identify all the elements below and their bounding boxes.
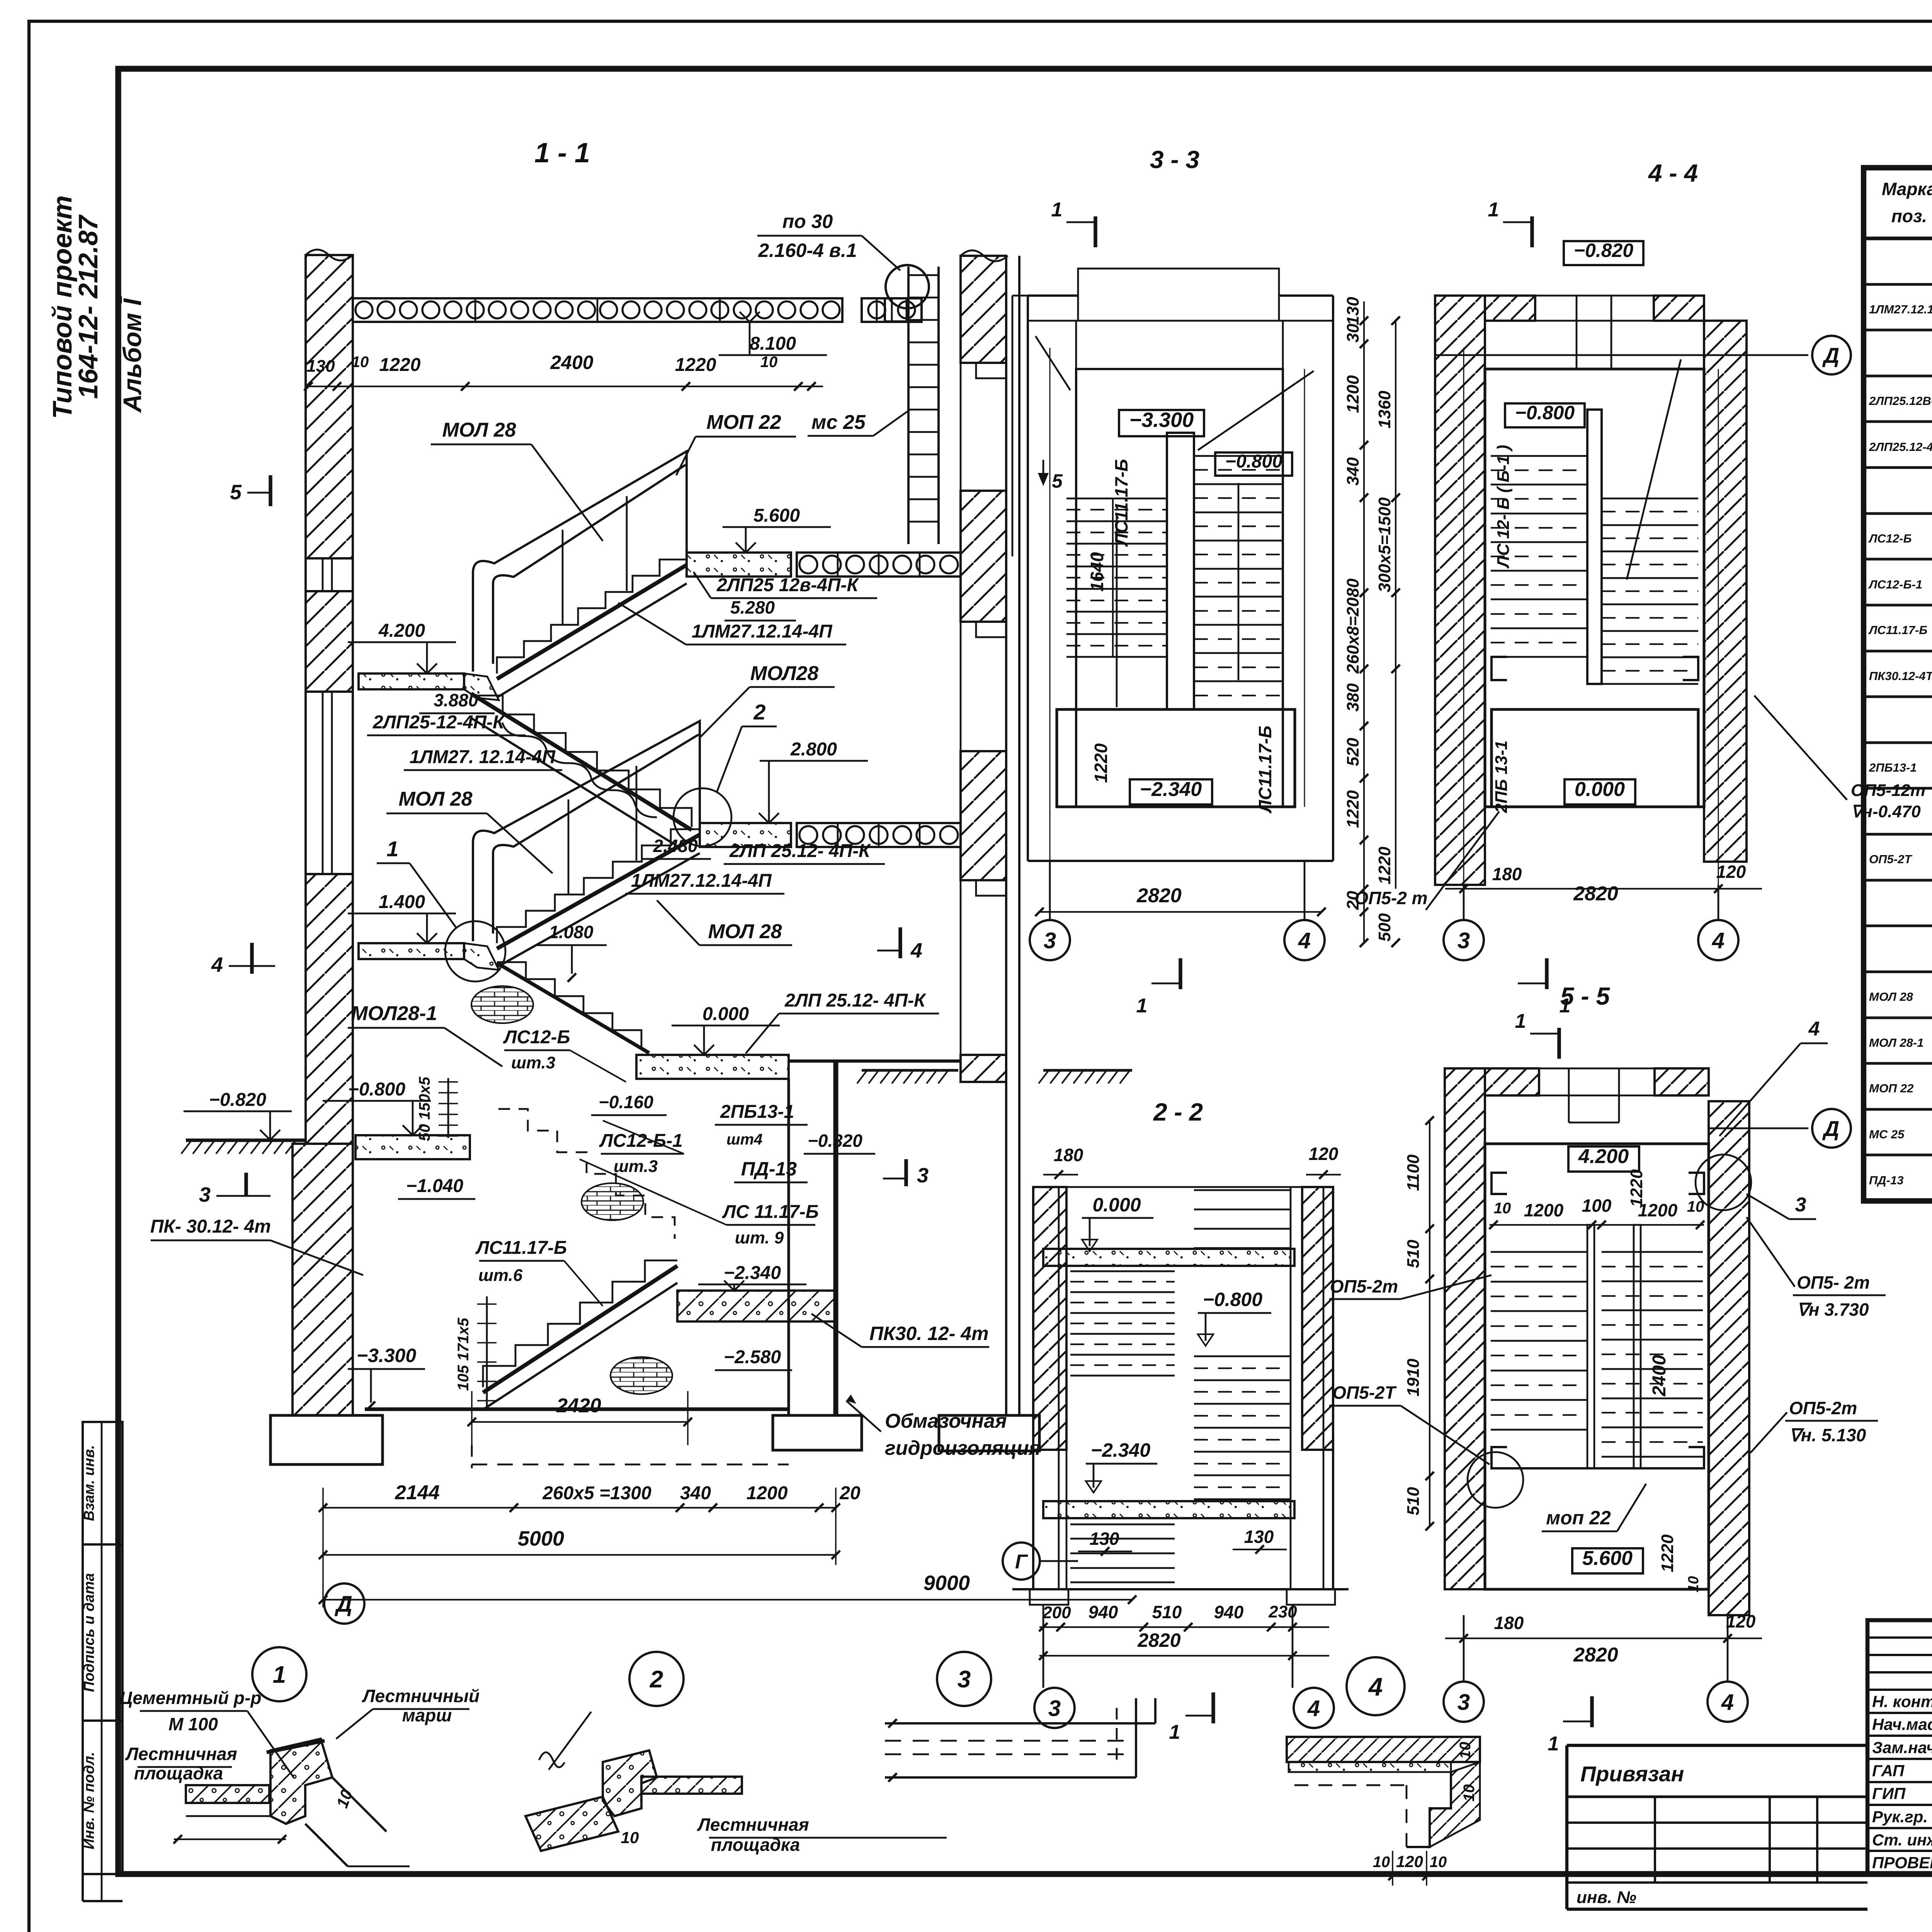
detail 4 screed band <box>1289 1762 1451 1772</box>
svg-text:−0.820: −0.820 <box>209 1090 266 1110</box>
axis circles 5-5 <box>1463 1615 1465 1682</box>
svg-text:ЛС12-Б: ЛС12-Б <box>503 1027 570 1048</box>
svg-text:ЛС11.17-Б: ЛС11.17-Б <box>1111 459 1131 547</box>
svg-text:∇н-0.470: ∇н-0.470 <box>1851 802 1921 821</box>
svg-text:10: 10 <box>1430 1854 1447 1871</box>
plan 3-3 top corridor outline <box>1078 269 1279 296</box>
section marker 5 left <box>269 475 272 506</box>
plan 5-5 bottom dims <box>1445 1638 1762 1639</box>
section marker 3 left <box>244 1173 248 1196</box>
svg-text:МОЛ 28: МОЛ 28 <box>708 920 782 943</box>
detail circle at 1.400 nib <box>445 921 505 981</box>
masonry blob symbol <box>611 1357 672 1394</box>
svg-text:ПРОВЕР.: ПРОВЕР. <box>1872 1854 1932 1872</box>
plan 4-4 right wall hatched <box>1704 321 1747 862</box>
svg-text:мс 25: мс 25 <box>811 411 866 434</box>
svg-text:Лестничная: Лестничная <box>697 1815 809 1835</box>
level -0.800 basement entry <box>403 1125 413 1135</box>
section 4-4 cut flag top <box>1530 216 1534 247</box>
svg-text:5.600: 5.600 <box>1582 1547 1633 1570</box>
svg-text:Инв. № подл.: Инв. № подл. <box>81 1752 97 1850</box>
detail 1 landing slab band <box>186 1785 269 1803</box>
plan 4-4 center divider <box>1587 410 1602 684</box>
svg-text:940: 940 <box>1088 1602 1118 1622</box>
svg-text:510: 510 <box>1152 1602 1182 1622</box>
svg-text:1220: 1220 <box>1091 743 1111 783</box>
svg-text:9000: 9000 <box>923 1571 970 1595</box>
section 3-3 cut flag bottom <box>1179 958 1182 989</box>
dashed pit outline <box>472 1464 789 1466</box>
svg-text:ПК30.12-4Т: ПК30.12-4Т <box>1869 669 1932 683</box>
plan 4-4 inner room <box>1485 369 1704 807</box>
svg-text:1: 1 <box>273 1662 286 1688</box>
slab band at 5.600 <box>797 553 961 577</box>
dimension 2420 <box>472 1421 688 1423</box>
detail 2 hook mark <box>539 1752 565 1767</box>
svg-text:ЛС12-Б-1: ЛС12-Б-1 <box>1868 578 1922 591</box>
privyazan stamp block <box>1567 1744 1867 1747</box>
svg-text:2144: 2144 <box>395 1481 440 1504</box>
svg-text:гидроизоляция: гидроизоляция <box>885 1437 1041 1459</box>
axis circle Г left <box>1003 1543 1040 1580</box>
svg-text:Нач.маст: Нач.маст <box>1872 1715 1932 1733</box>
svg-text:4: 4 <box>910 939 922 962</box>
svg-text:5: 5 <box>1052 470 1063 492</box>
plan 2-2 dim 2820 <box>1039 1655 1329 1656</box>
svg-text:шт.3: шт.3 <box>511 1053 555 1072</box>
svg-text:МОЛ 28: МОЛ 28 <box>442 419 516 441</box>
support pad ОП <box>1492 1173 1507 1194</box>
top dimension line <box>308 386 823 387</box>
soil hatch right of pit <box>862 1069 958 1071</box>
svg-text:3: 3 <box>1044 928 1056 953</box>
specification table header row <box>1864 236 1932 240</box>
svg-text:2820: 2820 <box>1573 883 1618 905</box>
step dim ladder 50 150x5 <box>447 1078 449 1138</box>
soil hatch left <box>186 1139 306 1142</box>
svg-text:1.400: 1.400 <box>379 892 425 912</box>
svg-text:1ЛМ27.12.14-4П: 1ЛМ27.12.14-4П <box>1869 303 1932 316</box>
slab band at 2.800 <box>797 823 961 847</box>
svg-text:0.000: 0.000 <box>1575 778 1625 801</box>
basement dashed flight <box>498 1109 675 1239</box>
svg-text:площадка: площадка <box>134 1763 223 1783</box>
plan 5-5 left wall hatched <box>1445 1068 1485 1589</box>
level label 0.000 <box>1565 779 1635 804</box>
entrance threshold right <box>789 1060 961 1063</box>
svg-text:4: 4 <box>1712 928 1725 953</box>
plan 4-4 left wall hatched <box>1435 296 1485 885</box>
treads 5-5 left <box>1491 1251 1587 1253</box>
svg-text:−2.340: −2.340 <box>724 1263 781 1283</box>
svg-text:2.160-4 в.1: 2.160-4 в.1 <box>758 240 857 261</box>
svg-text:−3.300: −3.300 <box>357 1345 417 1366</box>
plan 3-3 arrows on flights <box>1116 514 1118 707</box>
plan 2-2 right wall hatched <box>1302 1187 1333 1450</box>
extension lines <box>322 1488 324 1607</box>
svg-text:Зам.нач.: Зам.нач. <box>1872 1738 1932 1757</box>
svg-text:120: 120 <box>1716 862 1746 882</box>
plan 5-5 center dividers <box>1587 1225 1594 1468</box>
svg-text:Марка: Марка <box>1882 179 1932 199</box>
svg-text:5: 5 <box>230 481 242 504</box>
left dim column 5-5 <box>1429 1121 1430 1526</box>
svg-text:шт.3: шт.3 <box>614 1157 658 1176</box>
svg-text:4: 4 <box>1808 1018 1820 1040</box>
svg-text:510: 510 <box>1404 1240 1423 1268</box>
svg-text:−0.160: −0.160 <box>599 1092 653 1112</box>
detail 1 step block <box>270 1739 332 1824</box>
stair railing МОЛ28 upper <box>473 451 687 672</box>
plan 2-2 wall verticals <box>1058 1187 1060 1589</box>
svg-text:Н. контр.: Н. контр. <box>1872 1692 1932 1711</box>
detail 4 hatched slab <box>1287 1737 1480 1762</box>
right wall ledges <box>961 363 1006 378</box>
axis Д line and circle <box>1435 354 1808 356</box>
svg-text:3: 3 <box>917 1164 929 1187</box>
detail 2 landing slab band <box>641 1777 742 1794</box>
support pad ОП <box>1689 1447 1704 1468</box>
svg-text:10: 10 <box>352 354 369 371</box>
svg-text:ЛС 11.17-Б: ЛС 11.17-Б <box>722 1202 819 1222</box>
detail 4 step down <box>1406 1772 1451 1847</box>
svg-text:2: 2 <box>753 700 765 724</box>
svg-text:380: 380 <box>1344 683 1362 712</box>
specification table outline <box>1864 168 1932 1201</box>
svg-text:4: 4 <box>1368 1672 1383 1701</box>
svg-text:поз.: поз. <box>1891 206 1927 226</box>
svg-text:260х5 =1300: 260х5 =1300 <box>542 1483 651 1503</box>
svg-text:Альбом Ī: Альбом Ī <box>118 296 146 413</box>
svg-text:−2.340: −2.340 <box>1091 1439 1151 1461</box>
detail 3 wall verticals <box>1135 1698 1137 1777</box>
plan 5-5 lower landing <box>1491 1467 1703 1469</box>
svg-text:1: 1 <box>1051 199 1063 221</box>
axis circles 3-3 <box>1049 861 1051 920</box>
treads 2-2 upper left <box>1070 1270 1175 1272</box>
axis circles 2-2 <box>1043 1605 1044 1688</box>
section marker 4 right <box>898 927 902 958</box>
plan 5-5 right wall hatched <box>1709 1101 1749 1615</box>
svg-text:5.600: 5.600 <box>753 505 800 526</box>
svg-text:10: 10 <box>1687 1198 1704 1215</box>
svg-text:ПД-13: ПД-13 <box>1869 1173 1904 1187</box>
svg-text:шт.6: шт.6 <box>478 1266 523 1285</box>
svg-text:1640: 1640 <box>1087 552 1107 592</box>
dimension row 2144 260x5 340 1200 20 <box>323 1507 836 1509</box>
ground line left, level -0.820 <box>186 1138 306 1141</box>
svg-text:340: 340 <box>1344 457 1362 486</box>
detail 2 marsh leader <box>549 1712 591 1770</box>
left side strip (Взам.инв.№ / Подпись и дата / Инв.№ подл.) <box>83 1422 122 1874</box>
plan 3-3 outer walls <box>1027 296 1029 861</box>
treads left flight 3-3 <box>1066 498 1167 500</box>
svg-text:4.200: 4.200 <box>378 621 425 641</box>
plan 2-2 feet <box>1030 1589 1068 1605</box>
title block outline <box>1867 1620 1932 1874</box>
level label −0.800 <box>1505 403 1585 427</box>
svg-text:130: 130 <box>1090 1529 1119 1549</box>
svg-text:180: 180 <box>1494 1613 1524 1633</box>
section 3-3 cut flag top <box>1094 216 1097 247</box>
section cut flag 1 below 2-2 <box>1211 1692 1215 1723</box>
svg-text:4 - 4: 4 - 4 <box>1648 159 1698 187</box>
svg-text:100: 100 <box>1582 1196 1612 1216</box>
svg-text:МОП 22: МОП 22 <box>706 411 781 434</box>
svg-text:Цементный р-р: Цементный р-р <box>120 1688 262 1708</box>
stair flight 1ЛМ27 (1.4-2.8) <box>497 829 700 943</box>
svg-text:2820: 2820 <box>1136 884 1182 907</box>
svg-text:3: 3 <box>1048 1696 1061 1721</box>
svg-text:−0.820: −0.820 <box>1574 240 1634 261</box>
svg-text:130: 130 <box>1344 297 1362 325</box>
detail 4 dashed lines <box>1294 1784 1406 1786</box>
svg-text:3: 3 <box>1795 1194 1806 1216</box>
svg-text:1220: 1220 <box>1627 1169 1646 1207</box>
svg-text:1200: 1200 <box>747 1483 788 1503</box>
svg-text:510: 510 <box>1404 1487 1423 1515</box>
svg-text:Лестничный: Лестничный <box>362 1686 480 1706</box>
svg-text:1: 1 <box>1515 1010 1526 1032</box>
detail 1 marsh soffit <box>332 1777 386 1832</box>
detail 1 callout circle <box>252 1647 306 1701</box>
svg-text:Д: Д <box>1822 1116 1839 1141</box>
slab band 0.000 (speckled) <box>1043 1249 1294 1266</box>
axis lines through plan 4-4 <box>1463 348 1464 885</box>
svg-text:120: 120 <box>1726 1611 1756 1631</box>
svg-text:1ЛМ27.12.14-4П: 1ЛМ27.12.14-4П <box>692 621 833 642</box>
svg-text:2ПБ13-1: 2ПБ13-1 <box>1869 761 1917 774</box>
svg-text:1: 1 <box>386 837 398 861</box>
svg-text:ЛС 12- Б ( Б-1 ): ЛС 12- Б ( Б-1 ) <box>1494 445 1513 568</box>
svg-text:ГИП: ГИП <box>1872 1784 1906 1803</box>
level label −0.800 <box>1215 452 1292 476</box>
floor slab 0.000 <box>636 1055 789 1079</box>
svg-text:МС 25: МС 25 <box>1869 1128 1905 1141</box>
detail 3 dashed jamb <box>1116 1708 1118 1762</box>
plan 4-4 bottom dims <box>1445 888 1762 889</box>
section marker 3 right <box>904 1159 908 1186</box>
svg-text:2400: 2400 <box>550 352 593 373</box>
left foundation block <box>270 1415 383 1464</box>
level label −3.300 <box>1119 410 1204 436</box>
svg-text:Взам. инв.: Взам. инв. <box>81 1445 97 1521</box>
svg-text:300х5=1500: 300х5=1500 <box>1375 497 1394 592</box>
svg-text:3 - 3: 3 - 3 <box>1150 146 1199 173</box>
level mark 8.100 <box>740 312 750 322</box>
svg-text:1 - 1: 1 - 1 <box>534 138 590 168</box>
svg-text:130: 130 <box>306 357 335 376</box>
level label −2.340 <box>1130 779 1212 804</box>
svg-text:1: 1 <box>1169 1721 1180 1743</box>
svg-text:ОП5-2Т: ОП5-2Т <box>1869 852 1913 866</box>
plan 4-4 top wall pieces <box>1485 296 1535 321</box>
section 5-5 cut flag bottom <box>1590 1696 1594 1727</box>
svg-text:10: 10 <box>1457 1742 1474 1759</box>
svg-text:0.000: 0.000 <box>1092 1194 1141 1216</box>
left wall window strips <box>306 558 353 591</box>
svg-text:1: 1 <box>1548 1733 1559 1755</box>
svg-text:260х8=2080: 260х8=2080 <box>1344 578 1362 674</box>
pit foundation block <box>773 1415 862 1450</box>
masonry blob symbol <box>582 1183 643 1220</box>
svg-text:2ЛП 25.12- 4П-К: 2ЛП 25.12- 4П-К <box>784 990 927 1011</box>
svg-text:Ст. инж.: Ст. инж. <box>1872 1831 1932 1849</box>
vertical dimension column between 3-3 and 4-4 <box>1363 301 1365 943</box>
detail 2 lower wedge <box>526 1797 618 1851</box>
detail callout circle top-right <box>1696 1155 1751 1210</box>
treads 2-2 right <box>1194 1355 1291 1357</box>
svg-text:МОЛ28-1: МОЛ28-1 <box>351 1002 437 1025</box>
svg-text:инв. №: инв. № <box>1577 1888 1636 1907</box>
svg-text:1220: 1220 <box>379 355 421 375</box>
svg-text:5 - 5: 5 - 5 <box>1560 982 1610 1010</box>
svg-text:по 30: по 30 <box>782 211 833 232</box>
basement landing slab ПК30 -2.340 <box>677 1291 835 1321</box>
hollow-core slab band <box>353 298 842 322</box>
big detail circle 4 <box>1347 1657 1405 1715</box>
svg-text:520: 520 <box>1344 738 1362 766</box>
svg-text:ЛС11.17-Б: ЛС11.17-Б <box>1255 726 1275 813</box>
svg-text:3: 3 <box>1458 928 1470 953</box>
svg-text:2ЛП25.12В-4П-К: 2ЛП25.12В-4П-К <box>1869 394 1932 408</box>
plan 5-5 top dim row <box>1490 1224 1704 1226</box>
svg-text:1220: 1220 <box>1375 847 1394 884</box>
svg-text:−2.580: −2.580 <box>724 1347 781 1367</box>
svg-text:ОП5-2т: ОП5-2т <box>1789 1398 1857 1418</box>
leader lines fanning to flight <box>570 1050 626 1082</box>
svg-text:ЛС11.17-Б: ЛС11.17-Б <box>1868 623 1927 637</box>
svg-text:2ЛП25 12в-4П-К: 2ЛП25 12в-4П-К <box>716 575 859 595</box>
svg-text:ОП5-2 т: ОП5-2 т <box>1354 888 1427 908</box>
slab anchor hook symbol <box>886 265 929 308</box>
svg-text:−0.800: −0.800 <box>1515 402 1575 423</box>
stair flight 1ЛМ27 (4.2-5.6) <box>497 560 687 673</box>
dimension 9000 <box>323 1599 1132 1600</box>
treads right flight 4-4 <box>1602 498 1698 500</box>
level label 4.200 <box>1568 1146 1639 1172</box>
svg-text:20: 20 <box>839 1483 861 1503</box>
svg-text:940: 940 <box>1214 1602 1244 1622</box>
svg-text:4: 4 <box>1298 928 1311 953</box>
step dim ladder 105 171x5 <box>486 1296 488 1408</box>
svg-text:120: 120 <box>1396 1852 1423 1871</box>
svg-text:МОЛ 28: МОЛ 28 <box>1869 990 1913 1003</box>
axis lines through plan 3-3 <box>1049 348 1051 861</box>
plan 3-3 flight center divider <box>1167 433 1194 709</box>
plan 4-4 lower landing <box>1492 709 1698 807</box>
left wall of section 1-1 (hatched masonry) <box>306 255 353 558</box>
svg-text:2ПБ 13-1: 2ПБ 13-1 <box>1492 740 1511 813</box>
plan 3-3 leader to upper area <box>1036 336 1070 390</box>
svg-text:5000: 5000 <box>518 1527 564 1550</box>
svg-text:ПК30. 12- 4т: ПК30. 12- 4т <box>869 1323 989 1344</box>
plan 2-2 bottom dims 200/940/510/940/230 <box>1039 1626 1329 1628</box>
right wall inner leaf lines <box>1005 256 1007 1415</box>
detail 2 callout circle <box>629 1652 684 1706</box>
entry flight steps <box>497 962 641 1047</box>
right wall foundation <box>939 1415 1039 1451</box>
slab band -2.340 (speckled) <box>1043 1501 1294 1518</box>
plan 5-5 inner room <box>1485 1144 1709 1589</box>
svg-text:ЛС11.17-Б: ЛС11.17-Б <box>475 1238 567 1258</box>
svg-text:2.800: 2.800 <box>790 739 837 760</box>
svg-text:марш: марш <box>402 1705 452 1725</box>
treads 2-2 upper right <box>1194 1189 1291 1191</box>
plan 3-3 inner room <box>1076 369 1283 807</box>
support pad ОП <box>1689 1173 1704 1194</box>
plan 3-3 top opening jambs <box>1077 296 1079 321</box>
hollow-core slab band <box>862 298 922 322</box>
svg-text:ПК- 30.12- 4т: ПК- 30.12- 4т <box>150 1216 271 1237</box>
landing slab 1.400 <box>359 943 464 959</box>
svg-text:10: 10 <box>760 354 778 371</box>
svg-text:Обмазочная: Обмазочная <box>885 1410 1007 1432</box>
svg-text:4: 4 <box>1307 1696 1320 1721</box>
svg-text:8.100: 8.100 <box>750 333 796 354</box>
detail 4 extension lines <box>1392 1851 1393 1886</box>
svg-text:2: 2 <box>650 1666 663 1693</box>
axis circles 4-4 <box>1463 885 1465 920</box>
basement stair flight <box>483 1260 677 1387</box>
svg-text:340: 340 <box>680 1483 711 1503</box>
title block signature rows <box>1867 1636 1932 1639</box>
detail 1 tread top line <box>267 1741 325 1752</box>
landing slab 5.600 (2ЛП25.12В) <box>687 553 791 577</box>
svg-text:500: 500 <box>1375 913 1394 942</box>
svg-text:1220: 1220 <box>1658 1534 1677 1572</box>
plan 5-5 door posts top <box>1568 1068 1570 1122</box>
right wall top break mark <box>961 250 1008 261</box>
support pad ОП <box>1492 1447 1507 1468</box>
svg-text:ОП5-2т: ОП5-2т <box>1330 1276 1398 1296</box>
svg-text:200: 200 <box>1042 1603 1071 1622</box>
plan 4-4 leader <box>1627 359 1681 580</box>
svg-text:1910: 1910 <box>1404 1359 1423 1396</box>
svg-text:моп 22: моп 22 <box>1546 1507 1611 1529</box>
detail 1 dim line <box>174 1838 286 1840</box>
svg-text:180: 180 <box>1054 1145 1083 1165</box>
masonry blob symbol <box>471 986 533 1023</box>
plan 2-2 top dims 180/120 <box>1043 1174 1078 1175</box>
svg-text:МОЛ 28-1: МОЛ 28-1 <box>1869 1036 1923 1049</box>
svg-text:3: 3 <box>957 1666 971 1693</box>
svg-text:1100: 1100 <box>1404 1154 1423 1191</box>
landing slab 2.800 <box>700 823 791 847</box>
plan 2-2 top line <box>1033 1186 1333 1188</box>
svg-text:50 150х5: 50 150х5 <box>416 1077 433 1141</box>
section 5-5 cut flag top <box>1557 1028 1561 1059</box>
svg-text:1.080: 1.080 <box>549 922 594 942</box>
svg-text:−0.800: −0.800 <box>1203 1289 1263 1310</box>
svg-text:ЛС12-Б: ЛС12-Б <box>1868 532 1912 545</box>
svg-text:ГАП: ГАП <box>1872 1762 1905 1780</box>
support pad ОП <box>1683 657 1698 680</box>
detail 3 tick <box>888 1719 897 1728</box>
svg-text:10: 10 <box>1494 1200 1511 1217</box>
svg-text:2ПБ13-1: 2ПБ13-1 <box>720 1102 794 1122</box>
svg-text:ОП5-2Т: ОП5-2Т <box>1332 1383 1397 1403</box>
wavy nosing line <box>502 723 657 817</box>
svg-text:4.200: 4.200 <box>1578 1145 1629 1168</box>
svg-text:2420: 2420 <box>556 1395 601 1417</box>
svg-text:−2.340: −2.340 <box>1140 778 1202 801</box>
axis circle Д of section 1-1 <box>324 1583 364 1624</box>
svg-text:4: 4 <box>1721 1690 1734 1715</box>
svg-text:2ЛП25.12-4П-К: 2ЛП25.12-4П-К <box>1869 440 1932 454</box>
svg-text:М 100: М 100 <box>168 1714 218 1734</box>
detail callout circle bottom-left <box>1468 1452 1523 1508</box>
